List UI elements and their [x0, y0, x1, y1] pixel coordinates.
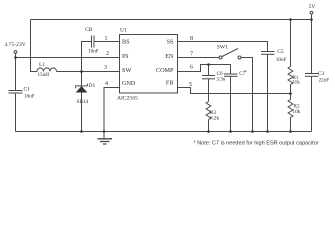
wire C1 to ground rail — [15, 93, 17, 132]
capacitor C3 output — [305, 73, 319, 75]
capacitor C1 — [9, 90, 23, 92]
svg-text:GND: GND — [122, 80, 136, 87]
switch SW1 — [219, 56, 222, 59]
resistor R3 — [206, 102, 211, 120]
svg-text:5: 5 — [189, 82, 192, 88]
svg-text:10uF: 10uF — [24, 94, 35, 100]
IC U1 AIC2565 body — [120, 35, 178, 94]
wire SS pin 8 to C5 — [178, 42, 268, 52]
junction R3 ground — [207, 130, 210, 133]
wire COMP pin 6 to compensation node — [178, 65, 231, 72]
resistor R2 — [288, 100, 293, 118]
svg-text:CB: CB — [85, 27, 93, 33]
wire EN pin 7 to switch — [178, 57, 220, 59]
wire C5 to ground rail — [267, 54, 269, 131]
capacitor CB bootstrap — [91, 36, 93, 48]
wire COMP node to C6 — [208, 65, 210, 76]
svg-text:C5: C5 — [277, 49, 284, 55]
svg-text:3: 3 — [104, 65, 107, 71]
node input terminal circle — [14, 51, 17, 54]
svg-text:3.3n: 3.3n — [216, 77, 225, 83]
svg-text:L1: L1 — [39, 62, 45, 68]
svg-text:6.2k: 6.2k — [210, 116, 219, 122]
wire CB to IC pin 1 — [94, 41, 120, 43]
junction 5V rail corner — [310, 18, 313, 21]
wire R2 to ground rail — [290, 118, 292, 132]
svg-text:BS: BS — [122, 39, 130, 46]
svg-text:31k: 31k — [292, 79, 300, 85]
svg-text:15uH: 15uH — [38, 72, 50, 78]
svg-text:* Note: C7 is needed for high: * Note: C7 is needed for high ESR output… — [194, 141, 319, 147]
svg-text:U1: U1 — [120, 28, 127, 34]
junction R2 ground — [289, 130, 292, 133]
junction switch ground — [251, 130, 254, 133]
svg-text:EN: EN — [165, 53, 174, 60]
wire C7 to ground rail — [230, 76, 232, 131]
wire R3 to ground rail — [208, 120, 210, 132]
svg-text:SW1: SW1 — [217, 45, 228, 51]
svg-text:FB: FB — [166, 80, 174, 87]
svg-text:10nF: 10nF — [276, 57, 287, 63]
wire C6 to R3 — [208, 79, 210, 102]
svg-text:SB34: SB34 — [77, 99, 89, 105]
junction COMP node — [207, 63, 210, 66]
junction SW node — [80, 70, 83, 73]
wire COMP node to C7 — [230, 65, 232, 75]
wire 5V terminal stub — [311, 14, 313, 19]
junction FB node — [289, 92, 292, 95]
wire C1 branch — [15, 58, 17, 91]
svg-text:5V: 5V — [309, 4, 316, 10]
svg-text:1: 1 — [105, 36, 108, 42]
svg-text:10k: 10k — [293, 109, 301, 115]
svg-text:10nF: 10nF — [88, 49, 99, 55]
wire SW node L1 to IC pin 3 — [57, 71, 120, 73]
wire SW node to D1 — [81, 72, 83, 87]
svg-text:6: 6 — [190, 65, 193, 71]
svg-text:8: 8 — [190, 36, 193, 42]
capacitor C6 compensation — [202, 75, 215, 77]
wire FB pin 5 to divider node — [178, 88, 291, 94]
wire C3 to ground rail — [311, 76, 313, 131]
wire VOUT top rail — [31, 19, 312, 21]
svg-text:4: 4 — [105, 81, 108, 87]
wire ground bottom rail — [16, 131, 312, 133]
svg-text:AIC2565: AIC2565 — [117, 96, 138, 102]
capacitor C7 optional — [224, 73, 238, 75]
resistor R1 — [288, 67, 293, 85]
svg-text:4.75-23V: 4.75-23V — [5, 42, 26, 48]
wire top rail to R1 — [290, 20, 292, 67]
wire D1 anode to ground rail — [81, 92, 83, 131]
wire switch to ground rail — [241, 58, 253, 132]
svg-text:SS: SS — [167, 39, 174, 46]
wire left drop from top rail to L1 — [31, 20, 38, 72]
svg-text:2: 2 — [106, 51, 109, 57]
svg-text:SW: SW — [122, 67, 131, 74]
wire IN net input to IC pin 2 — [16, 57, 120, 59]
svg-text:22uF: 22uF — [319, 78, 330, 84]
svg-text:D1: D1 — [89, 83, 96, 89]
svg-text:*: * — [244, 70, 247, 76]
ground symbol — [103, 132, 105, 139]
junction GND pin ground — [103, 130, 106, 133]
node 5V terminal circle — [310, 11, 313, 14]
wire FB node to R2 — [290, 94, 292, 100]
junction C5 ground — [266, 130, 269, 133]
diode D1 schottky — [76, 84, 88, 89]
svg-text:7: 7 — [190, 52, 193, 58]
svg-text:C3: C3 — [318, 71, 324, 77]
wire GND pin 4 to ground rail — [104, 88, 120, 132]
junction C7 ground — [229, 130, 232, 133]
svg-text:COMP: COMP — [156, 67, 174, 74]
junction input node — [14, 56, 17, 59]
junction R1 top rail — [289, 18, 292, 21]
wire BS net to SW node — [82, 42, 92, 72]
inductor L1 — [37, 68, 57, 72]
wire input terminal stub — [15, 53, 17, 57]
junction D1 ground — [80, 130, 83, 133]
svg-text:C1: C1 — [24, 87, 31, 93]
wire R1 to FB node — [290, 85, 292, 94]
svg-text:IN: IN — [122, 53, 129, 60]
wire top rail to C3 — [311, 20, 313, 74]
capacitor C5 soft-start — [261, 51, 275, 53]
